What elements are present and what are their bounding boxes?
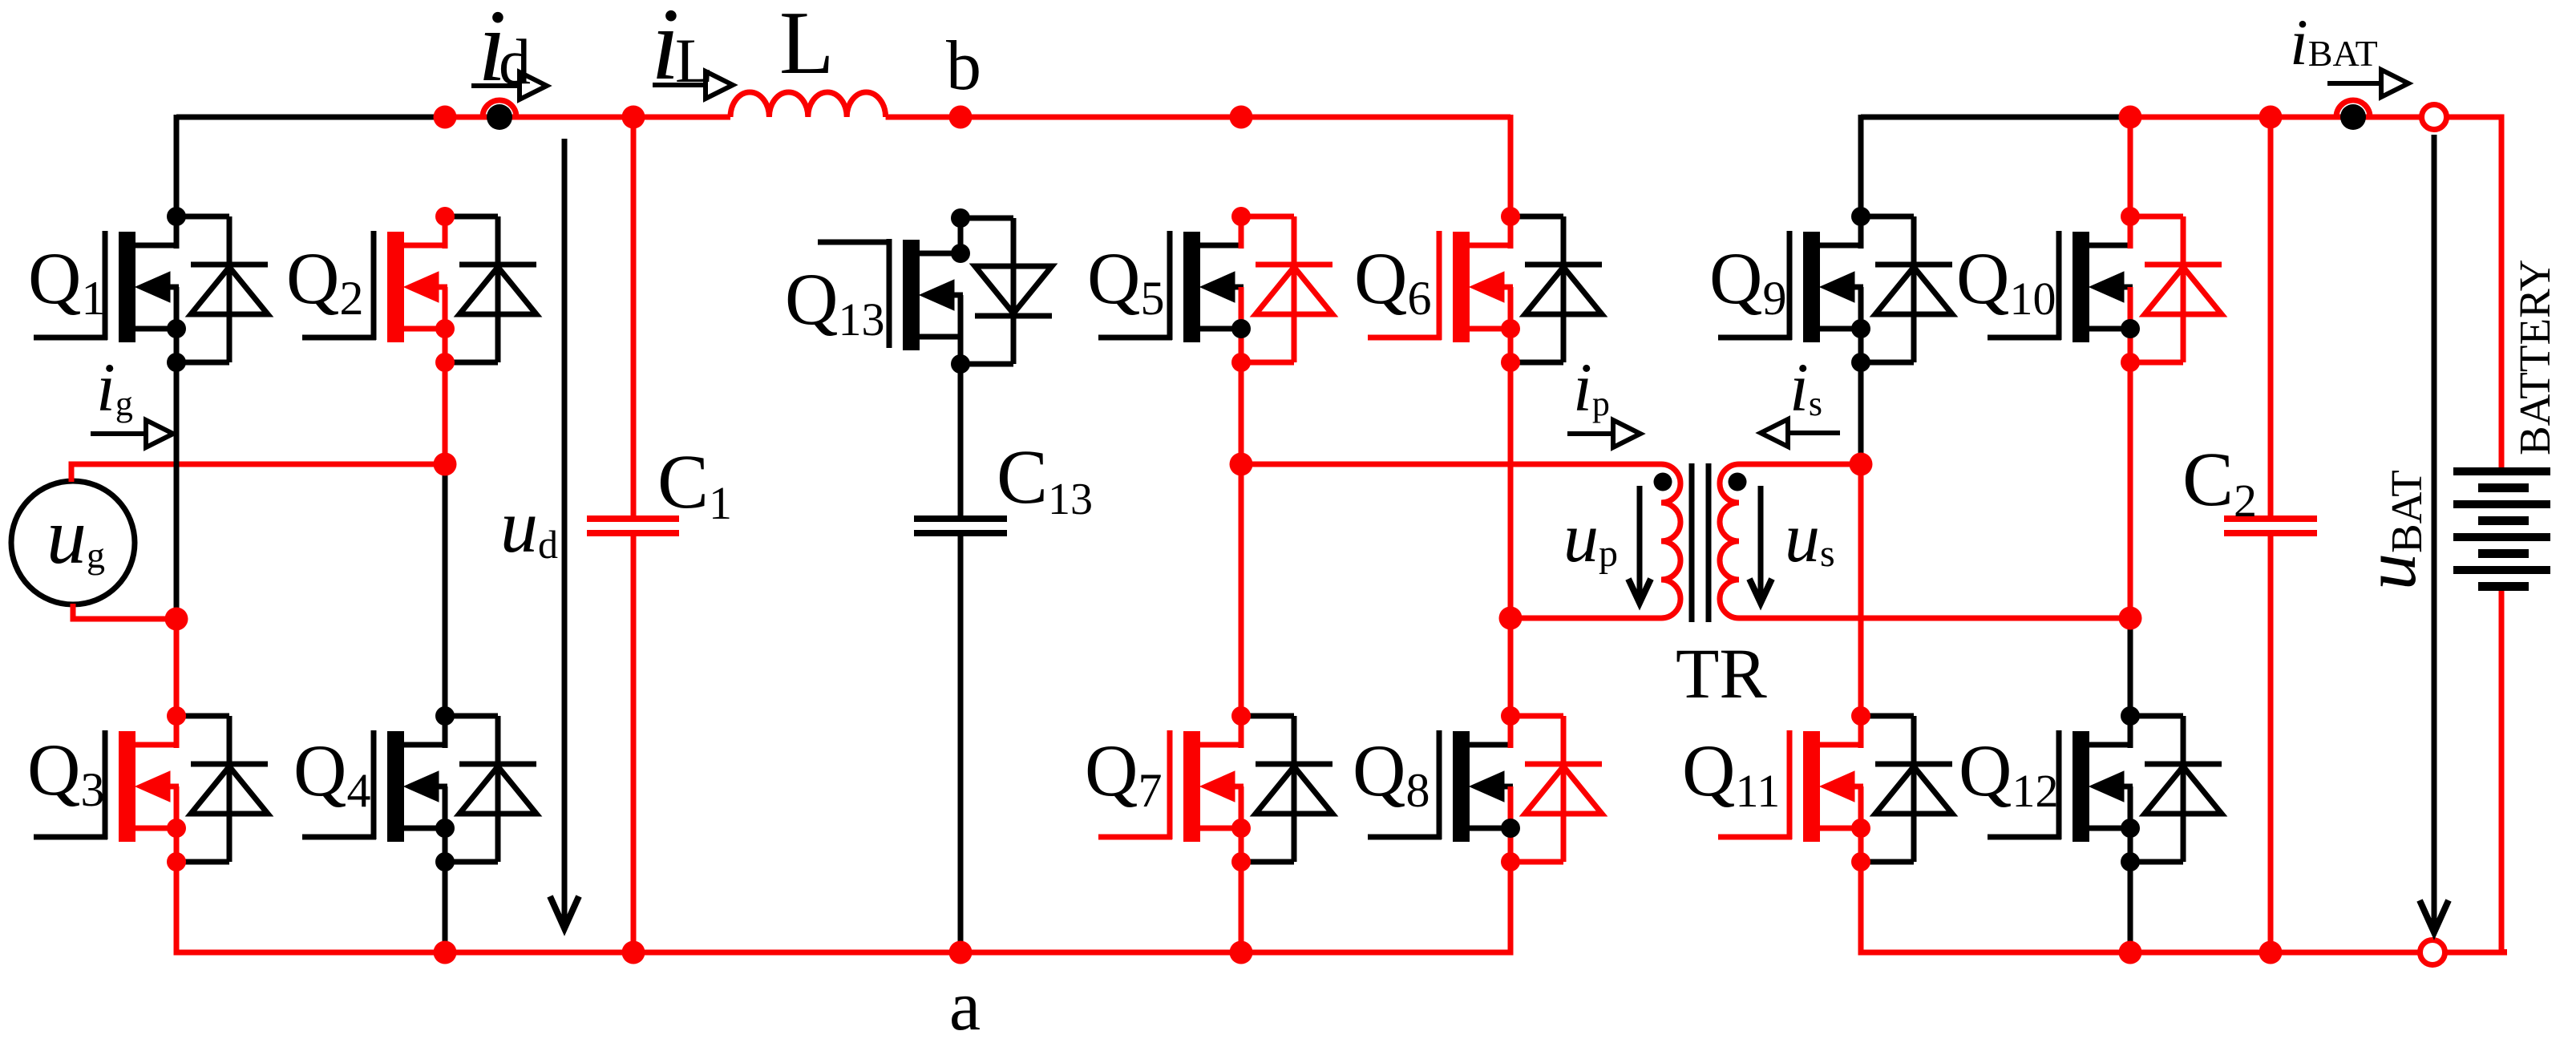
junction dot Q1/Q3 mid bbox=[165, 608, 188, 631]
wire Q3 leg upper (red) bbox=[174, 619, 180, 716]
wire Q4 leg lower (black) bbox=[443, 862, 448, 952]
arrow id bbox=[471, 83, 520, 88]
transistor Q10 bbox=[1988, 207, 2222, 372]
wire top bus red: inductor to Q6 corner bbox=[886, 115, 1510, 120]
svg-text:d: d bbox=[499, 27, 531, 98]
transformer TR primary winding bbox=[1241, 464, 1680, 618]
transistor Q4 bbox=[302, 706, 536, 871]
arrow ud bbox=[562, 139, 568, 924]
transformer polarity dot secondary bbox=[1729, 473, 1747, 491]
svg-text:ug: ug bbox=[47, 491, 105, 580]
transistor Q1 bbox=[34, 207, 268, 372]
wire top bus right (black): Q9 to Q10 bbox=[1861, 115, 2130, 120]
transistor Q9 bbox=[1718, 207, 1952, 372]
sensor hop arc bbox=[483, 100, 516, 117]
junction dot C1 top bbox=[622, 106, 645, 129]
wire Q11 leg bottom corner bbox=[1858, 862, 1864, 956]
junction dot Q9 mid (secondary top) bbox=[1850, 453, 1873, 476]
junction dot C1 bottom bbox=[622, 941, 645, 964]
capacitor C2 plates bbox=[2224, 515, 2317, 522]
junction dot Q2 top bbox=[434, 106, 457, 129]
svg-text:ip: ip bbox=[1573, 349, 1610, 426]
junction dot C2 top bbox=[2259, 106, 2283, 129]
arrow up bbox=[1637, 486, 1643, 596]
transistor Q6 bbox=[1368, 207, 1602, 372]
capacitor C1 top leg bbox=[631, 117, 637, 515]
svg-text:us: us bbox=[1785, 499, 1835, 577]
wire Q6 leg mid (red) bbox=[1508, 362, 1514, 618]
capacitor C13 plates bbox=[914, 515, 1007, 522]
wire Q8 leg upper (red) bbox=[1508, 618, 1514, 716]
svg-text:ud: ud bbox=[500, 485, 558, 568]
capacitor C1 plates bbox=[587, 515, 679, 522]
svg-text:up: up bbox=[1563, 499, 1618, 577]
svg-text:C1: C1 bbox=[657, 439, 732, 529]
inductor L bbox=[730, 92, 886, 117]
capacitor C13 top leg bbox=[958, 366, 964, 515]
transistor Q8 bbox=[1368, 706, 1602, 871]
svg-text:Q11: Q11 bbox=[1682, 730, 1780, 817]
node b junction dot bbox=[949, 106, 973, 129]
svg-text:Q10: Q10 bbox=[1956, 237, 2056, 325]
transistor Q13 bbox=[818, 208, 1052, 374]
wire Q9 leg top corner bbox=[1858, 115, 1864, 216]
arrow us bbox=[1758, 486, 1764, 596]
battery plates bbox=[2453, 467, 2550, 475]
transformer core bars bbox=[1689, 463, 1695, 622]
wire Q6 leg upper (red) bbox=[1508, 115, 1514, 216]
junction dot C2 bottom bbox=[2259, 941, 2283, 964]
svg-text:Q6: Q6 bbox=[1354, 237, 1431, 325]
wire bottom right corner to battery bbox=[2445, 949, 2505, 952]
wire Q8 leg bottom corner bbox=[1508, 862, 1514, 956]
wire Q5-Q7 leg (red) bbox=[1239, 464, 1244, 716]
transistor Q7 bbox=[1098, 706, 1332, 871]
transistor Q2 bbox=[302, 207, 536, 372]
wire ug top to Q2 midpoint bbox=[71, 464, 447, 482]
arrow iBAT bbox=[2327, 81, 2381, 86]
wire Q10 leg mid (red) bbox=[2128, 362, 2133, 618]
current sensor dot on battery bus (iBAT) bbox=[2340, 104, 2366, 130]
wire Q11 leg upper (red) bbox=[1858, 464, 1864, 716]
junction dot Q10 top bbox=[2119, 106, 2142, 129]
svg-text:Q4: Q4 bbox=[293, 730, 370, 817]
arrow ig bbox=[91, 431, 146, 436]
svg-text:C2: C2 bbox=[2182, 436, 2257, 527]
svg-text:L: L bbox=[675, 26, 714, 95]
junction dot Q5 mid (primary top) bbox=[1230, 453, 1253, 476]
wire battery leg down bbox=[2499, 117, 2505, 471]
transformer TR secondary winding bbox=[1720, 464, 2130, 618]
svg-text:C13: C13 bbox=[997, 434, 1093, 524]
wire terminal to battery corner bbox=[2447, 115, 2505, 120]
svg-text:is: is bbox=[1789, 349, 1822, 426]
svg-text:Q5: Q5 bbox=[1087, 237, 1164, 325]
wire top bus right red: Q10 to battery corner bbox=[2130, 115, 2421, 120]
svg-text:Q13: Q13 bbox=[785, 258, 884, 346]
capacitor C1 bottom leg bbox=[631, 536, 637, 952]
svg-text:BATTERY: BATTERY bbox=[2510, 260, 2559, 455]
terminal circle top right bbox=[2422, 105, 2447, 130]
wire Q7 leg bottom bbox=[1239, 862, 1244, 952]
wire ug bottom to Q3 leg bbox=[73, 604, 178, 619]
wire Q10 leg upper (red) bbox=[2128, 115, 2133, 216]
wire Q12 leg upper (black) bbox=[2128, 618, 2133, 716]
wire Q4 leg upper (black) bbox=[443, 464, 448, 716]
wire Q9 leg mid (black) bbox=[1858, 362, 1864, 464]
wire bottom bus left red bbox=[176, 950, 1514, 956]
svg-text:Q2: Q2 bbox=[286, 237, 363, 325]
junction dot Q12 bottom bbox=[2119, 941, 2142, 964]
svg-text:Q8: Q8 bbox=[1353, 730, 1430, 817]
svg-text:Q9: Q9 bbox=[1709, 237, 1786, 325]
wire battery leg bottom bbox=[2499, 587, 2505, 956]
transistor Q12 bbox=[1988, 706, 2222, 871]
capacitor C13 bottom leg bbox=[958, 536, 964, 952]
capacitor C2 top leg bbox=[2268, 117, 2274, 515]
transformer polarity dot primary bbox=[1654, 473, 1672, 491]
svg-text:Q7: Q7 bbox=[1085, 730, 1162, 817]
arrow is bbox=[1786, 431, 1840, 435]
terminal circle bottom right bbox=[2420, 940, 2445, 965]
svg-text:Q3: Q3 bbox=[27, 729, 104, 816]
svg-text:b: b bbox=[946, 27, 981, 105]
wire Q1 leg top bbox=[174, 115, 180, 216]
transistor Q11 bbox=[1718, 706, 1952, 871]
transistor Q3 bbox=[34, 706, 268, 871]
sensor hop arc right bbox=[2336, 100, 2370, 117]
svg-text:ig: ig bbox=[96, 349, 133, 426]
wire Q3 leg bottom corner bbox=[174, 862, 180, 956]
transistor Q5 bbox=[1098, 207, 1332, 372]
arrow ip bbox=[1567, 431, 1613, 436]
wire Q5 leg segments (red) bbox=[1239, 362, 1244, 464]
svg-text:Q1: Q1 bbox=[28, 237, 105, 325]
arrow iL bbox=[653, 83, 706, 87]
wire top bus red: Q2 top to inductor bbox=[445, 115, 730, 120]
wire Q1 leg lower (black) bbox=[174, 362, 180, 619]
svg-text:uBAT: uBAT bbox=[2349, 470, 2431, 590]
junction dot C13 bottom bbox=[949, 941, 973, 964]
source ug circle bbox=[11, 481, 135, 604]
svg-text:L: L bbox=[779, 0, 834, 93]
junction dot Q2 mid bbox=[434, 453, 457, 476]
wire top bus left (black) bbox=[176, 115, 447, 120]
junction dot Q7 bottom bbox=[1230, 941, 1253, 964]
junction dot Q5 top bbox=[1230, 106, 1253, 129]
capacitor C2 bottom leg bbox=[2268, 536, 2274, 952]
wire Q12 leg lower (black) bbox=[2128, 862, 2133, 952]
svg-text:iBAT: iBAT bbox=[2290, 6, 2378, 79]
svg-text:Q12: Q12 bbox=[1959, 730, 2058, 817]
arrow uBAT bbox=[2432, 135, 2437, 928]
wire Q2 leg mid (red) bbox=[443, 362, 448, 464]
svg-text:a: a bbox=[949, 968, 981, 1039]
junction dot Q10 mid (secondary bottom) bbox=[2119, 607, 2142, 630]
wire bottom bus right red bbox=[1861, 950, 2420, 956]
current sensor dot on top bus (id) bbox=[487, 104, 512, 130]
junction dot Q4 bottom bbox=[434, 941, 457, 964]
junction dot Q6 mid (primary bottom) bbox=[1499, 607, 1523, 630]
svg-text:TR: TR bbox=[1676, 635, 1767, 714]
